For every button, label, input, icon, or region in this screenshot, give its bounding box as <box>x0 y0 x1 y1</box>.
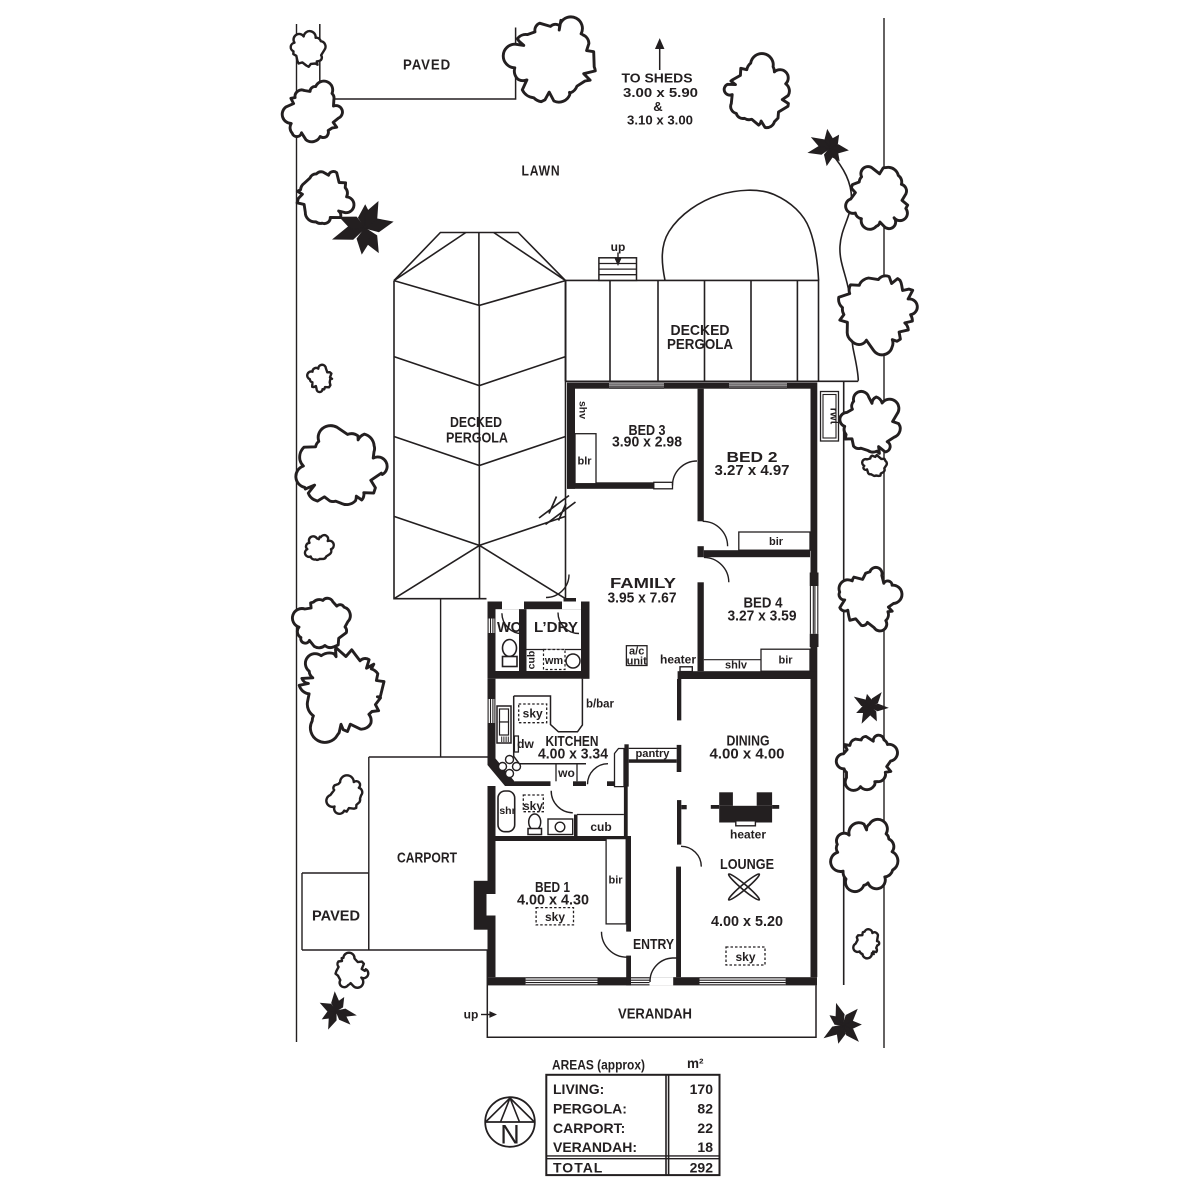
svg-text:ENTRY: ENTRY <box>633 936 674 953</box>
svg-text:4.00 x 4.00: 4.00 x 4.00 <box>710 746 785 763</box>
break symbol (family/pergola) <box>539 496 576 525</box>
svg-text:heater: heater <box>660 653 696 667</box>
svg-text:292: 292 <box>690 1160 714 1176</box>
svg-text:heater: heater <box>730 828 766 842</box>
left pergola hip end lines <box>394 545 566 598</box>
left pergola right edge lower <box>565 281 567 599</box>
label PERGOLA (right pergola) <box>667 336 733 353</box>
right pergola joist 1 <box>609 280 611 381</box>
label TOTAL <box>553 1160 603 1176</box>
wc/ldry bottom wall <box>488 671 590 679</box>
label up (verandah) <box>464 1008 479 1022</box>
tree (left big y691) <box>299 648 384 743</box>
svg-text:3.95 x 7.67: 3.95 x 7.67 <box>608 590 677 607</box>
value 292 <box>690 1160 714 1176</box>
bed3 door arc <box>673 461 698 486</box>
kitchen sky skylight box <box>519 704 547 723</box>
bed3 door leaf <box>654 482 673 489</box>
lounge door arc <box>681 846 701 866</box>
label PAVED (top) <box>403 57 451 74</box>
label kitchen dims <box>538 746 609 763</box>
label shlv <box>725 660 748 672</box>
svg-text:PERGOLA:: PERGOLA: <box>553 1100 627 1116</box>
fireplace hearth <box>736 821 756 826</box>
fridge cabinet <box>497 706 511 743</box>
to-sheds arrow <box>656 40 663 70</box>
hall wall lower stub <box>626 956 631 986</box>
label VERANDAH <box>553 1139 637 1155</box>
label DECKED (right pergola) <box>671 322 730 339</box>
lounge wall nib <box>681 805 686 809</box>
spiky plant (right top) <box>809 130 848 165</box>
svg-text:bir: bir <box>769 536 784 548</box>
north symbol letter N <box>500 1120 520 1150</box>
lounge sky skylight box <box>726 947 765 965</box>
label heater (bed4 wall) <box>660 653 696 667</box>
pantry right wall stub <box>677 745 682 772</box>
svg-text:VERANDAH:: VERANDAH: <box>553 1139 637 1155</box>
bath door gap arc <box>551 791 573 813</box>
wc toilet <box>503 640 518 667</box>
svg-text:L’DRY: L’DRY <box>534 619 578 636</box>
carport outline <box>369 757 488 950</box>
kitchen bottom wall stub <box>573 781 586 786</box>
right wall window pier bottom <box>810 634 819 647</box>
ldry door arc <box>558 613 579 634</box>
bed4 shelf line <box>704 659 761 661</box>
pergola corner stub <box>564 598 577 602</box>
svg-text:4.00 x 5.20: 4.00 x 5.20 <box>711 913 783 930</box>
cub left wall <box>574 815 578 837</box>
label BED 2 <box>727 449 778 466</box>
rwt tank box <box>821 392 839 442</box>
bed2/3 divider wall upper <box>698 389 704 522</box>
bed2/4 divider wall <box>704 550 810 557</box>
bed3 bottom wall <box>567 482 660 489</box>
garden line pergola corner to bed <box>819 380 859 382</box>
ac unit box <box>626 646 647 666</box>
label heater (fireplace) <box>730 828 766 842</box>
svg-text:rwt: rwt <box>828 408 840 425</box>
wc door gap (top wall) <box>502 602 524 610</box>
label PERGOLA (left pergola) <box>446 430 508 447</box>
right wall upper (bed2) <box>811 383 818 573</box>
lounge left wall lower <box>676 867 681 978</box>
svg-text:cub: cub <box>526 651 538 670</box>
spiky plant (left y1011) <box>321 993 355 1029</box>
label shv (bed3) <box>577 401 589 419</box>
areas table total rule <box>546 1156 719 1159</box>
label bed3 dims <box>612 434 682 451</box>
wc/ldry divider wall <box>519 609 527 671</box>
bed1 left wall <box>488 786 496 977</box>
svg-text:shlv: shlv <box>725 660 748 672</box>
garden bed line along house <box>843 381 845 985</box>
left pergola chevron 1 <box>394 281 566 306</box>
svg-text:VERANDAH: VERANDAH <box>618 1006 692 1023</box>
family/bed4 divider wall lower <box>698 582 704 671</box>
bed1 top wall <box>488 836 632 841</box>
right decked pergola outline <box>566 280 819 381</box>
bath sky skylight box <box>523 795 543 812</box>
svg-text:bir: bir <box>608 875 623 887</box>
tree (right y600) <box>839 567 902 631</box>
svg-text:DECKED: DECKED <box>450 414 502 431</box>
label pantry <box>636 748 671 760</box>
label AREAS (approx) <box>552 1058 645 1073</box>
deck steps box <box>599 258 637 281</box>
svg-text:18: 18 <box>697 1139 713 1155</box>
svg-text:dw: dw <box>517 737 534 751</box>
bed2 door arc <box>703 521 728 546</box>
svg-text:3.27 x 3.59: 3.27 x 3.59 <box>728 608 797 625</box>
svg-text:4.00 x 3.34: 4.00 x 3.34 <box>538 746 609 763</box>
label sky (lounge) <box>735 950 755 964</box>
areas table divider <box>666 1075 669 1175</box>
label KITCHEN <box>546 733 599 750</box>
spiky plant (left y228) <box>333 202 392 253</box>
label bir (bed1) <box>608 875 623 887</box>
svg-text:bir: bir <box>778 655 793 667</box>
value 18 <box>697 1139 713 1155</box>
label L'DRY <box>534 619 578 636</box>
tree (right y197) <box>846 167 908 230</box>
svg-text:up: up <box>464 1008 479 1022</box>
right pergola joist 3 <box>704 280 706 381</box>
lounge left wall upper <box>677 800 681 845</box>
value 170 <box>690 1081 714 1097</box>
tree (top-left boundary) <box>291 31 326 67</box>
svg-text:sky: sky <box>735 950 755 964</box>
areas table box <box>546 1075 719 1175</box>
right pergola joist 2 <box>657 280 659 381</box>
label cub <box>590 820 611 834</box>
left decked pergola outline <box>394 233 566 599</box>
window front wall (bed1) <box>526 977 598 985</box>
label WC <box>497 619 521 636</box>
svg-text:sky: sky <box>545 910 565 924</box>
label PAVED (left) <box>312 908 360 925</box>
left wall (kitchen) <box>488 679 496 762</box>
window right wall (bed4) <box>810 586 817 634</box>
svg-text:wo: wo <box>557 766 575 780</box>
tree (left y624) <box>292 598 350 648</box>
small tree (left y379) <box>307 365 332 392</box>
ldry trough circle <box>566 654 580 668</box>
left pergola inner hip line A <box>394 233 466 281</box>
dining left wall upper <box>677 679 681 720</box>
tree (top right of paved) <box>724 54 789 128</box>
hall wall (bed1 right) <box>626 839 631 932</box>
label bed1 dims <box>517 892 589 909</box>
label BED 4 <box>744 595 784 612</box>
svg-text:PAVED: PAVED <box>403 57 451 74</box>
svg-text:WC: WC <box>497 619 521 636</box>
label BED 3 <box>629 422 666 439</box>
cub closet line <box>577 814 624 816</box>
svg-text:up: up <box>611 240 626 254</box>
ldry right wall <box>581 602 590 679</box>
svg-text:unit: unit <box>627 656 647 668</box>
svg-text:cub: cub <box>590 820 611 834</box>
heater unit box <box>680 667 692 672</box>
front wall <box>488 977 818 985</box>
svg-text:TO SHEDS: TO SHEDS <box>622 71 693 86</box>
bed2/3 divider wall mid <box>698 546 704 557</box>
verandah up-arrow <box>481 1011 497 1018</box>
label b/bar <box>586 697 614 711</box>
svg-text:3.10 x 3.00: 3.10 x 3.00 <box>627 113 693 128</box>
window top wall (bed3) <box>609 383 664 389</box>
kitchen dishwasher <box>514 736 518 752</box>
kitchen bench lower edge <box>519 763 586 765</box>
bed4 robe box <box>761 649 810 671</box>
label bed2 dims <box>715 462 790 479</box>
label FAMILY <box>610 575 676 592</box>
label sheds dim 1 <box>623 85 698 100</box>
left wall (wc) <box>488 602 496 674</box>
label sky (bath) <box>523 799 543 813</box>
label CARPORT <box>553 1120 625 1136</box>
svg-text:LIVING:: LIVING: <box>553 1081 604 1097</box>
value 82 <box>697 1100 713 1116</box>
fireplace right wing <box>772 805 779 809</box>
family-deck door arc <box>546 575 569 598</box>
svg-text:PERGOLA: PERGOLA <box>446 430 508 447</box>
window left wall (kitchen) <box>488 699 496 723</box>
window front wall (lounge) <box>700 977 786 985</box>
svg-text:pantry: pantry <box>636 748 671 760</box>
bed4 door arc <box>704 557 729 582</box>
right site boundary line <box>883 18 885 1048</box>
kitchen corner diagonal wall <box>488 759 515 787</box>
label rwt <box>828 408 840 425</box>
kitchen stove burners <box>499 756 521 778</box>
svg-text:3.00 x 5.90: 3.00 x 5.90 <box>623 85 698 100</box>
bath basin <box>548 819 573 835</box>
svg-text:3.90 x 2.98: 3.90 x 2.98 <box>612 434 682 451</box>
pantry left wall stub <box>624 744 628 786</box>
spiky plant (right y1025) <box>825 1004 861 1042</box>
front door arc <box>650 958 677 982</box>
label wm <box>544 655 564 667</box>
label LAWN <box>522 163 561 180</box>
ldry washing machine box <box>544 650 566 670</box>
kitchen door arc <box>588 764 609 785</box>
svg-text:170: 170 <box>690 1081 714 1097</box>
label bir (bed4) <box>778 655 793 667</box>
label LOUNGE <box>720 856 774 873</box>
right wall window pier top <box>810 573 819 587</box>
fireplace left tower <box>719 792 733 806</box>
label DINING <box>727 733 770 750</box>
label LIVING <box>553 1081 604 1097</box>
svg-text:PAVED: PAVED <box>312 908 360 925</box>
svg-text:LAWN: LAWN <box>522 163 561 180</box>
paved rect (left) <box>302 873 369 950</box>
bed1 chimney <box>474 881 496 930</box>
svg-text:22: 22 <box>697 1120 713 1136</box>
tree (right big y310) <box>839 276 918 355</box>
cub right wall <box>624 786 628 836</box>
label dining dims <box>710 746 785 763</box>
bed3 robe box <box>575 434 596 484</box>
label cub (ldry) <box>526 651 538 670</box>
label unit <box>627 656 647 668</box>
left pergola chevron 2 <box>394 357 566 386</box>
north symbol arrow <box>486 1098 535 1122</box>
left pergola chevron 3 <box>394 437 566 466</box>
label dw <box>517 737 534 751</box>
north symbol circle <box>485 1097 535 1147</box>
bed2 robe box <box>739 532 810 550</box>
kitchen bottom wall <box>505 781 551 786</box>
bath toilet <box>528 814 542 835</box>
label BED 1 <box>535 879 570 896</box>
label DECKED (left pergola) <box>450 414 502 431</box>
label VERANDAH <box>618 1006 692 1023</box>
ldry bench line <box>527 649 582 651</box>
label lounge dims <box>711 913 783 930</box>
svg-text:CARPORT: CARPORT <box>397 850 457 867</box>
wc door arc <box>502 613 523 633</box>
house top wall <box>567 383 817 389</box>
label sheds amp <box>653 99 662 114</box>
svg-text:AREAS (approx): AREAS (approx) <box>552 1058 645 1073</box>
left pergola centre ridge line <box>478 233 481 599</box>
bed1 sky skylight box <box>536 908 573 925</box>
right pergola bottom edge <box>566 380 819 382</box>
svg-text:4.00 x 4.30: 4.00 x 4.30 <box>517 892 589 909</box>
label CARPORT <box>397 850 457 867</box>
label PERGOLA <box>553 1100 627 1116</box>
garden bed blob curve (behind pergola) <box>662 190 818 280</box>
deck steps down-arrow <box>615 253 622 267</box>
carport/paved bottom line <box>302 949 488 951</box>
ldry door gap (top wall) <box>562 602 581 610</box>
bed1 robe box <box>606 839 626 924</box>
ceiling fan <box>727 872 761 902</box>
pantry shelf line <box>629 747 677 749</box>
left site boundary line <box>296 24 298 1042</box>
bed4 bottom wall <box>678 671 817 679</box>
tree (right y761) <box>836 735 897 790</box>
label sky (bed1) <box>545 910 565 924</box>
label bir (bed2) <box>769 536 784 548</box>
right wall lower (dining/lounge) <box>811 647 818 977</box>
fireplace right tower <box>757 792 772 806</box>
svg-text:82: 82 <box>697 1100 713 1116</box>
kitchen bench outline <box>514 679 583 764</box>
north symbol chord <box>485 1121 535 1123</box>
label ENTRY <box>633 936 674 953</box>
pantry bottom wall <box>629 759 677 763</box>
window top wall (bed2) <box>729 383 787 389</box>
wc/ldry top wall <box>488 602 590 610</box>
window front wall (hall) <box>631 977 650 985</box>
bed3 left wall <box>567 383 575 489</box>
label bed4 dims <box>728 608 797 625</box>
label up (deck steps) <box>611 240 626 254</box>
tree (left big y468) <box>296 426 387 505</box>
bath shower <box>498 791 515 832</box>
svg-text:wm: wm <box>544 655 564 667</box>
svg-text:CARPORT:: CARPORT: <box>553 1120 625 1136</box>
tree (left x320 y196) <box>297 171 354 223</box>
svg-text:sky: sky <box>523 707 543 721</box>
small tree (carport) <box>326 775 362 813</box>
svg-text:3.27 x 4.97: 3.27 x 4.97 <box>715 462 790 479</box>
label sheds dim 2 <box>627 113 693 128</box>
label m2 <box>687 1056 704 1071</box>
label shr <box>499 805 515 817</box>
spiky plant (right y707) <box>855 693 887 722</box>
tree (top middle big) <box>503 17 595 102</box>
left pergola chevron 4 <box>394 516 566 545</box>
garden bed S-curve (right) <box>831 153 858 381</box>
right pergola joist 5 <box>796 280 798 381</box>
pergola step line down to carport <box>440 599 442 757</box>
svg-text:PERGOLA: PERGOLA <box>667 336 733 353</box>
label a/c <box>629 646 644 658</box>
label sky (kitchen) <box>523 707 543 721</box>
value 22 <box>697 1120 713 1136</box>
svg-text:shr: shr <box>499 805 515 817</box>
label TO SHEDS <box>622 71 693 86</box>
bed1 door arc <box>602 932 627 957</box>
fireplace left wing <box>711 805 719 809</box>
svg-text:N: N <box>500 1120 520 1150</box>
window left wall (wc) <box>488 619 496 634</box>
tree (right y426) <box>840 391 900 453</box>
svg-text:blr: blr <box>577 456 592 468</box>
label blr (bed3) <box>577 456 592 468</box>
svg-text:TOTAL: TOTAL <box>553 1160 603 1176</box>
tree (paved lower) <box>336 953 369 988</box>
svg-text:sky: sky <box>523 799 543 813</box>
label family dims <box>608 590 677 607</box>
right pergola joist 4 <box>750 280 752 381</box>
paved forecourt outline (top) <box>320 24 516 99</box>
svg-text:m²: m² <box>687 1056 704 1071</box>
kitchen wall oven box <box>556 764 577 782</box>
svg-text:shv: shv <box>577 401 589 419</box>
pantry side cupboard <box>615 749 625 787</box>
small tree (left y549) <box>305 535 334 560</box>
tree (right y855) <box>831 819 898 891</box>
small tree (right y466) <box>862 455 887 476</box>
verandah outline <box>487 950 816 1037</box>
fireplace body <box>719 806 772 823</box>
label wo <box>557 766 575 780</box>
svg-text:b/bar: b/bar <box>586 697 614 711</box>
corridor top wall <box>607 781 628 786</box>
small tree (right y944) <box>853 929 879 958</box>
tree (left upper) <box>282 81 342 142</box>
left pergola inner hip line B <box>494 233 566 281</box>
svg-text:LOUNGE: LOUNGE <box>720 856 774 873</box>
front door gap <box>650 977 674 985</box>
